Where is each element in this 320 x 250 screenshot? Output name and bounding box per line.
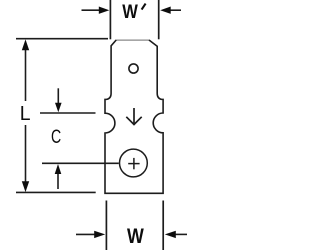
- dimension C down arrow: [55, 88, 62, 112]
- dimension C top line: [40, 112, 96, 114]
- dimension W-prime extension line left: [109, 0, 111, 39]
- blade hole: [129, 64, 138, 73]
- rivet circle with cross: [119, 149, 147, 177]
- dimension L top extension line: [16, 38, 108, 40]
- dimension W-prime left arrow: [82, 7, 110, 14]
- dimension L bottom extension line: [16, 191, 96, 193]
- dimension W right arrow: [165, 231, 187, 238]
- dimension W-prime right arrow: [160, 7, 181, 14]
- dimension C up arrow: [55, 164, 62, 189]
- dimension L line with arrows: [22, 39, 29, 192]
- insertion direction arrow: [126, 108, 141, 125]
- svg-text:W: W: [127, 224, 144, 248]
- terminal blade tip edge: [116, 39, 150, 41]
- dimension W-prime extension line right: [158, 0, 160, 39]
- svg-text:L: L: [20, 102, 31, 125]
- dimension W left arrow: [76, 231, 105, 238]
- dimension W extension line left: [105, 201, 107, 250]
- dimension C bottom line: [42, 162, 119, 164]
- dimension W extension line right: [162, 201, 164, 250]
- svg-text:W: W: [122, 2, 138, 23]
- svg-text:C: C: [51, 126, 61, 148]
- terminal body outline: [105, 40, 163, 193]
